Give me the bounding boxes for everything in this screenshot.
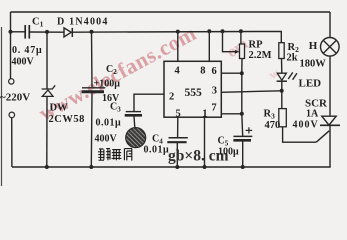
svg-text:400V: 400V (12, 57, 35, 68)
junction node pin6 bus (240, 71, 244, 75)
svg-text:DW: DW (50, 103, 69, 114)
svg-text:400V: 400V (293, 120, 319, 131)
wire pin5 to C4 (177, 117, 179, 137)
wire left rail lower (11, 118, 13, 167)
svg-text:4: 4 (175, 65, 181, 76)
svg-text:0.01μ: 0.01μ (144, 145, 170, 156)
wire zener to bottom (46, 96, 48, 167)
svg-text:1: 1 (202, 109, 207, 120)
junction node C4 bottom (175, 165, 179, 169)
svg-text:C1: C1 (32, 17, 44, 29)
wire bottom rail (12, 166, 331, 168)
zener DW 2CW58 (42, 85, 56, 96)
diode D 1N4004 (64, 28, 72, 37)
wire zener branch (46, 32, 48, 89)
wire pin7 stub (221, 113, 242, 115)
wire C2 top (91, 32, 94, 88)
junction node pin8 (207, 29, 211, 33)
RP wiper arrowhead (235, 50, 239, 54)
svg-text:2.2M: 2.2M (249, 50, 272, 61)
junction node C2 bottom (89, 165, 93, 169)
svg-text:2CW58: 2CW58 (49, 114, 85, 125)
wire second rail y=32 (11, 31, 25, 33)
junction node wiper (221, 29, 225, 33)
potentiometer RP (240, 44, 245, 59)
capacitor C1 (25, 25, 29, 39)
wire bus 6-7 to C5 (241, 73, 244, 136)
junction node on rail at left vert (9, 30, 13, 34)
capacitor C2 electrolytic (82, 88, 106, 92)
svg-text:~220V: ~220V (0, 92, 30, 104)
svg-text:+100μ: +100μ (94, 79, 121, 90)
capacitor C4 (167, 138, 188, 142)
scan edge artifact left (1, 27, 3, 186)
svg-text:R3: R3 (264, 109, 276, 121)
wire C3 to touch plate (133, 116, 136, 127)
capacitor C5 electrolytic (233, 136, 252, 140)
junction node zener top (45, 30, 49, 34)
junction node pin7 bus (240, 112, 244, 116)
wire RP wiper branch (223, 31, 237, 51)
wire left rail upper (10, 12, 12, 79)
svg-text:6: 6 (212, 66, 217, 77)
svg-text:400V: 400V (95, 134, 118, 145)
svg-text:0.01μ: 0.01μ (96, 118, 122, 129)
wire top rail (11, 11, 331, 13)
wire R3 to SCR gate (283, 127, 317, 142)
wire RP top drop (240, 31, 242, 44)
junction node zener bottom (45, 165, 49, 169)
capacitor C3 (125, 112, 142, 116)
wire diode to R2 corner (73, 31, 282, 42)
wire C5 to bottom (242, 141, 244, 167)
svg-text:H: H (309, 40, 318, 52)
resistor R3 (279, 109, 287, 127)
wire pin3 line to LED node (221, 91, 281, 93)
svg-text:LED: LED (299, 78, 322, 90)
svg-text:180W: 180W (300, 58, 327, 69)
svg-text:C3: C3 (110, 102, 121, 114)
lamp H (321, 38, 340, 57)
svg-text:100μ: 100μ (218, 147, 239, 158)
svg-text:5: 5 (176, 108, 181, 119)
wire R2 to LED (281, 59, 283, 73)
LED light arrows (288, 72, 297, 79)
wire SCR gate diagonal (316, 131, 329, 142)
wire pin2 to C3 (134, 94, 164, 111)
label chumopian (touch plate) (98, 149, 132, 161)
svg-text:1A: 1A (306, 109, 319, 120)
wire pin1 drop (204, 117, 206, 167)
svg-text:SCR: SCR (305, 97, 328, 109)
junction node pin1 bottom (203, 165, 207, 169)
svg-text:2k: 2k (287, 52, 298, 63)
svg-text:3: 3 (212, 86, 217, 97)
wire RP bottom to pin6 node (241, 59, 243, 74)
terminal lower ~220V (9, 112, 15, 118)
junction node pin4 (176, 30, 180, 34)
wire right drop to lamp (329, 12, 331, 38)
svg-text:2: 2 (169, 92, 174, 103)
plus sign C5 (246, 127, 253, 133)
wire pin4 drop (177, 32, 179, 62)
junction node LED pin3 (280, 89, 284, 93)
svg-text:555: 555 (185, 87, 203, 99)
svg-text:0. 47μ: 0. 47μ (12, 45, 42, 56)
junction node C5 bottom (241, 165, 245, 169)
wire lamp to SCR anode (329, 57, 331, 117)
touch plate pad (126, 128, 146, 148)
svg-text:D 1N4004: D 1N4004 (57, 17, 109, 28)
wire pin6 stub (221, 72, 242, 74)
wire C4 to bottom (176, 143, 178, 167)
svg-text:7: 7 (211, 102, 216, 113)
terminal upper ~220V (9, 79, 14, 84)
thyristor SCR (320, 116, 340, 125)
junction node RP top (239, 29, 243, 33)
svg-text:470: 470 (265, 120, 281, 131)
wire pin8 drop (208, 31, 210, 61)
wire C1 to diode (30, 31, 64, 33)
wire LED to R3 (281, 81, 283, 108)
wire C2 bottom (90, 93, 93, 167)
junction node C2 top (90, 30, 94, 34)
op-amp U1 555 timer box (164, 61, 221, 117)
svg-text:om: om (224, 35, 252, 61)
LED (277, 73, 287, 81)
wire SCR cathode to bottom rail (329, 125, 331, 167)
svg-text:8: 8 (200, 65, 205, 76)
resistor R2 (279, 43, 284, 59)
